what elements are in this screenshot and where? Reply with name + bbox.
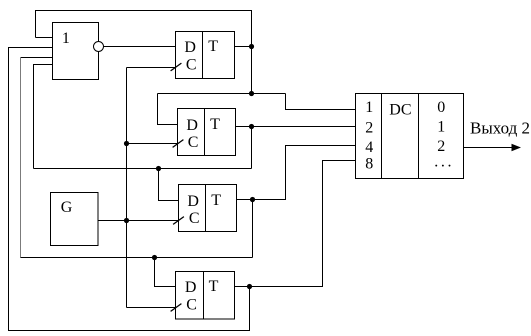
node FF4 Q <box>247 284 252 289</box>
wire FF1 Q down to node <box>251 47 253 94</box>
wire FF2 C <box>127 143 178 145</box>
clock slash FF4 <box>171 304 182 312</box>
wire FF3 Q to DC input 4 <box>237 146 357 200</box>
wire horizontal y257 <box>21 257 253 259</box>
arrowhead output <box>512 144 522 152</box>
wire NOR input 1 <box>36 37 53 39</box>
wire horizontal y93 <box>158 93 286 95</box>
wire FF3 Q down <box>252 200 254 258</box>
svg-text:D: D <box>187 193 199 210</box>
clock slash FF1 <box>171 63 182 71</box>
flip-flop T1 box <box>176 32 235 79</box>
wire NOR input 2 loop from FF4 Q <box>9 48 250 331</box>
wire FF1 Q top feedback to NOR input 1 <box>36 11 252 47</box>
wire NOR output to FF1 D <box>104 46 177 48</box>
svg-text:...: ... <box>434 154 454 171</box>
svg-text:DC: DC <box>389 101 411 118</box>
svg-text:2: 2 <box>437 138 445 155</box>
flip-flop T4 box <box>176 272 235 320</box>
svg-text:C: C <box>186 297 197 314</box>
clock slash FF3 <box>173 217 184 225</box>
generator G box <box>51 193 99 246</box>
svg-text:1: 1 <box>437 119 445 136</box>
svg-text:D: D <box>186 117 198 134</box>
wire to FF3 D <box>159 169 180 201</box>
node FF1 Q <box>249 44 254 49</box>
svg-text:D: D <box>184 39 196 56</box>
svg-text:G: G <box>61 199 73 216</box>
node FF4 D tap <box>152 255 157 260</box>
svg-text:D: D <box>185 279 197 296</box>
NOR gate box <box>53 23 99 80</box>
clock slash FF2 <box>173 140 184 148</box>
wire G out to FF3 C <box>98 220 179 222</box>
svg-text:C: C <box>188 134 199 151</box>
wire horizontal y168 <box>34 168 252 170</box>
wire to DC input 1 <box>286 94 357 110</box>
wire FF2 Q down <box>251 127 253 169</box>
wire gray vertical from FF3 loop <box>20 58 22 258</box>
decoder DC box <box>356 94 464 179</box>
node y93 junction <box>249 91 254 96</box>
svg-text:T: T <box>210 116 220 133</box>
wire FF4 Q to DC input 8 <box>235 161 356 287</box>
wire NOR input 4 from FF2 Q line <box>34 65 53 169</box>
wire DC output <box>464 147 515 149</box>
node FF2 C tap <box>124 141 129 146</box>
svg-text:1: 1 <box>62 30 70 47</box>
svg-text:0: 0 <box>437 99 445 116</box>
flip-flop T2 box <box>178 109 236 156</box>
wire FF1 Q out <box>235 46 252 48</box>
wire NOR input 3 <box>21 57 53 59</box>
wire FF2 Q to DC input 2 <box>236 126 357 128</box>
NOR output bubble <box>94 42 104 52</box>
svg-text:8: 8 <box>365 155 373 172</box>
svg-text:1: 1 <box>365 99 373 116</box>
wire to FF4 D <box>155 258 177 287</box>
svg-text:T: T <box>211 192 221 209</box>
node FF2 Q <box>249 124 254 129</box>
wire FF1 C <box>127 67 177 69</box>
node FF3 Q <box>250 197 255 202</box>
node FF3 D tap <box>156 166 161 171</box>
svg-text:Выход 2: Выход 2 <box>470 119 530 138</box>
svg-text:T: T <box>208 38 218 55</box>
wire FF4 C <box>127 307 177 309</box>
svg-text:4: 4 <box>365 139 373 156</box>
node G clock junction <box>124 218 129 223</box>
svg-text:T: T <box>209 278 219 295</box>
svg-text:2: 2 <box>365 119 373 136</box>
svg-text:C: C <box>186 57 197 74</box>
wire clock vertical <box>126 68 128 308</box>
svg-text:C: C <box>189 210 200 227</box>
wire FF4 Q down to bottom loop <box>249 287 251 331</box>
wire to FF2 D <box>158 94 178 125</box>
flip-flop T3 box <box>179 185 237 232</box>
